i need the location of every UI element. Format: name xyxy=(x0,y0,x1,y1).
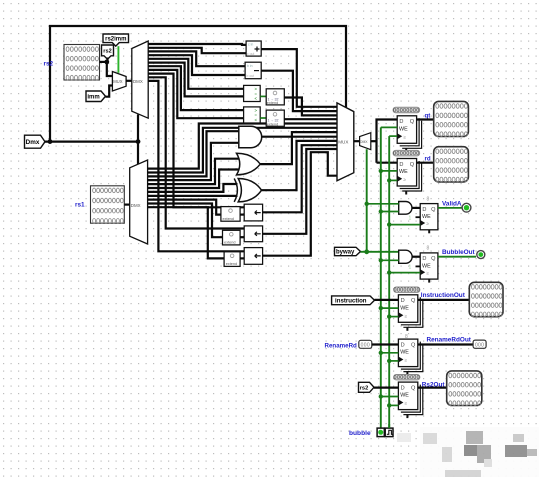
junction green select xyxy=(365,202,369,206)
tunnel imm xyxy=(86,91,106,102)
svg-text:D: D xyxy=(422,207,426,213)
comparator U5 xyxy=(244,107,261,123)
wire DMX3 out xyxy=(371,140,377,142)
wire WE to R2 xyxy=(381,170,397,172)
tunnel rs2 bottom xyxy=(359,382,375,392)
wire Dmx tunnel to demux selects xyxy=(45,141,138,143)
wire Dmx select net: left-top frame to MUX select xyxy=(50,26,346,142)
wire clk to R7 xyxy=(389,404,398,406)
wire rs2imm select (green) xyxy=(117,46,119,73)
svg-text:Q: Q xyxy=(431,207,436,213)
svg-text:MUX: MUX xyxy=(338,140,348,145)
probe InstructionOut 32-bit xyxy=(469,282,503,316)
wire DMX2 out9 to extender4 xyxy=(148,204,223,238)
svg-text:1: 1 xyxy=(409,265,412,271)
svg-text:rs2: rs2 xyxy=(44,61,54,68)
wire WE to R1 xyxy=(381,126,397,128)
wire DMX3 out0 to register D xyxy=(377,120,398,163)
svg-text:000: 000 xyxy=(361,343,370,349)
wire extender5 to shifter3 xyxy=(240,257,244,259)
svg-text:RenameRdOut: RenameRdOut xyxy=(427,336,472,343)
OR gate G2 xyxy=(237,153,261,175)
svg-text:Q: Q xyxy=(411,342,416,348)
wire WE to R7 xyxy=(381,396,399,398)
probe Rs2Out 32-bit xyxy=(447,371,482,406)
wire shifter1 out to MUX row9 xyxy=(263,145,337,212)
wire R3 Q to ValidA pin xyxy=(438,207,462,209)
wire R4 Q to BubbleOut pin xyxy=(438,256,476,258)
probe qt output 32-bit xyxy=(434,101,469,136)
svg-text:8: 8 xyxy=(427,197,430,203)
svg-text:WE: WE xyxy=(399,169,408,175)
svg-text:rs1: rs1 xyxy=(75,202,85,209)
junction green clk xyxy=(387,403,391,407)
wire clk to R2 xyxy=(389,179,397,181)
junction green WE xyxy=(379,394,383,398)
wire R7 Q to probe xyxy=(418,387,447,389)
wire subtractor out to MUX row1 xyxy=(261,71,337,111)
shifter U11 xyxy=(244,226,262,242)
multiplexer MUX1 xyxy=(112,72,126,92)
AND gate G1 xyxy=(239,126,262,147)
tunnel rs2 small xyxy=(102,45,114,59)
demultiplexer DMX2 xyxy=(130,160,148,244)
wire DMX2 out0 to MUX row xyxy=(148,124,337,169)
wire DMX2 out1 to MUX row xyxy=(148,128,337,173)
wire R3 WE stub xyxy=(416,216,421,218)
probe register rs2 value xyxy=(394,375,420,382)
wire R2 Q to probe xyxy=(417,162,434,164)
wire shifter3 out to MUX low row xyxy=(263,152,337,256)
wire DMX1 out7 to comparator2 B xyxy=(148,70,243,118)
bit extender U9 xyxy=(224,252,240,267)
watermark mosaic (censored) xyxy=(397,427,539,477)
wire extender2 out to MUX row3 xyxy=(284,118,337,120)
svg-text:D: D xyxy=(399,119,403,125)
shifter U10 xyxy=(244,204,262,221)
wire green clock rail xyxy=(388,136,390,428)
svg-text:byway: byway xyxy=(336,250,355,256)
wire rs1 to DMX2 xyxy=(124,204,129,206)
junction byway-select rail xyxy=(364,249,369,254)
wire imm to MUX1 in1 xyxy=(106,86,113,97)
svg-text:Rs2Out: Rs2Out xyxy=(422,381,446,388)
svg-text:00000000: 00000000 xyxy=(393,108,419,114)
svg-text:WE: WE xyxy=(400,305,409,311)
wire R1 Q to probe xyxy=(417,118,434,120)
junction green clk xyxy=(387,270,391,274)
wire DMX2 out2 to AND in0 xyxy=(148,131,239,176)
svg-text:instruction: instruction xyxy=(335,298,367,305)
wire DMX1 out2 to subtractor A xyxy=(148,51,245,66)
svg-text:WE: WE xyxy=(422,214,431,220)
junction green WE xyxy=(379,209,383,213)
junction green WE xyxy=(379,351,383,355)
probe rs2 value 00000000x4 xyxy=(64,45,100,81)
wire DMX1 out0 to adder A xyxy=(148,43,246,46)
wire green WE rail (bubble) xyxy=(380,127,382,428)
wire DMX1 out8 to shifter1 A xyxy=(148,74,244,208)
tunnel byway xyxy=(335,247,361,255)
svg-text:D: D xyxy=(399,162,403,168)
svg-text:00000000: 00000000 xyxy=(394,288,420,294)
tunnel instruction xyxy=(332,296,375,305)
register R4 BubbleOut xyxy=(420,253,438,283)
output pin BubbleOut xyxy=(477,251,485,259)
svg-text:WE: WE xyxy=(399,126,408,132)
svg-text:c out: c out xyxy=(247,52,254,56)
svg-text:extend: extend xyxy=(267,122,278,126)
junction green clk xyxy=(387,314,391,318)
wire DMX3 out1 to register D xyxy=(377,162,398,164)
wire green select rail (byway) xyxy=(366,149,368,252)
svg-text:rs2: rs2 xyxy=(360,385,369,391)
wire DMX1 out1 to adder B xyxy=(148,48,246,53)
svg-text:1: 1 xyxy=(409,216,412,222)
wire DMX2 out4 to OR in0 xyxy=(148,159,239,184)
wire rs2 probe out xyxy=(100,61,107,63)
svg-text:DMX: DMX xyxy=(360,140,368,144)
output pin ValidA xyxy=(462,203,471,212)
junction green WE xyxy=(379,169,383,173)
wire DMX2 out6 to XOR in0 xyxy=(148,184,238,192)
wire AND out to MUX row8 xyxy=(262,136,337,138)
svg-text:D: D xyxy=(401,298,405,304)
wire MUX1 out to DMX1 xyxy=(126,80,132,82)
wire select DMX1-DMX2 xyxy=(137,115,139,165)
svg-text:rs2: rs2 xyxy=(103,48,111,54)
register R3 ValidA xyxy=(420,204,438,234)
junction green clk xyxy=(387,359,391,363)
wire DMX1 out5 to comparator1 B xyxy=(148,63,243,97)
wire DMX1 out9 to shifter2 A xyxy=(148,77,244,228)
svg-text:D: D xyxy=(401,385,405,391)
svg-text:WE: WE xyxy=(400,393,409,399)
junction green clk xyxy=(387,178,391,182)
wire rs2 to MUX1 in0 xyxy=(107,62,113,76)
wire DMX2 out3 to AND in1 xyxy=(148,143,239,180)
svg-text:RenameRd: RenameRd xyxy=(325,343,358,350)
svg-text:DMX: DMX xyxy=(133,79,143,84)
wire shifter2 out to MUX row10 xyxy=(263,149,337,234)
wire rs2 tunnel down xyxy=(106,58,108,62)
wire DMX2 out10 to extender5 xyxy=(148,207,225,258)
register R6 RenameRd xyxy=(398,339,422,375)
svg-text:extend: extend xyxy=(224,241,235,245)
probe RenameRd input xyxy=(359,340,372,348)
svg-text:000: 000 xyxy=(475,343,484,349)
svg-text:00000000: 00000000 xyxy=(394,375,420,381)
wire XOR out to MUX row7 xyxy=(262,141,338,190)
wire DMX1 out10 to shifter3 A xyxy=(148,81,244,251)
svg-text:extend: extend xyxy=(226,262,237,266)
register R2 rd xyxy=(397,159,421,195)
multiplexer MUX2 xyxy=(337,103,354,181)
adder U1 xyxy=(246,41,261,56)
wire DMX1 out6 to comparator2 A xyxy=(148,66,243,110)
svg-text:8: 8 xyxy=(427,246,430,252)
wire R4 WE stub xyxy=(416,265,421,267)
wire extender4 to shifter2 xyxy=(240,236,244,238)
wire byway net xyxy=(361,251,399,253)
svg-text:extend: extend xyxy=(267,101,278,105)
bit extender U4 xyxy=(266,89,284,105)
wire WE to R5 xyxy=(381,307,399,309)
svg-text:00000000: 00000000 xyxy=(393,151,419,157)
comparator U3 xyxy=(244,85,261,101)
wire MUX2 out to DMX3 xyxy=(354,140,360,142)
junction demux select xyxy=(136,139,141,144)
wire rs2 to R7 D xyxy=(374,387,398,389)
svg-text:ValidA: ValidA xyxy=(442,201,462,208)
svg-text:Dmx: Dmx xyxy=(26,139,40,146)
wire OR out to MUX row6 xyxy=(260,132,337,164)
wire RenameRd to R6 D xyxy=(372,343,399,345)
probe RenameRdOut xyxy=(473,340,486,349)
AND gate G5 xyxy=(399,250,412,263)
wire DMX1 out4 to comparator1 A xyxy=(148,59,243,89)
svg-text:D: D xyxy=(422,256,426,262)
subtractor U2 xyxy=(245,62,261,78)
wire clk to R4 xyxy=(389,272,420,274)
wire DMX1 out3 to subtractor B xyxy=(148,55,245,75)
wire R6 Q to probe xyxy=(418,343,473,345)
probe register instruction value xyxy=(394,287,420,294)
wire clk to R5 xyxy=(389,316,398,318)
wire G5 out to R4 D xyxy=(412,256,420,258)
demultiplexer DMX3 xyxy=(360,133,371,150)
wire DMX2 out5 to OR in1 xyxy=(148,170,239,189)
svg-text:Q: Q xyxy=(431,256,436,262)
svg-text:bubble: bubble xyxy=(349,430,371,437)
bit extender U6 xyxy=(266,110,284,126)
tunnel Dmx xyxy=(25,135,46,148)
clock component xyxy=(385,428,393,437)
wire instruction to R5 D xyxy=(375,299,399,301)
svg-text:D: D xyxy=(401,342,405,348)
probe rs1 value 00000000x4 xyxy=(91,186,125,223)
svg-text:b in: b in xyxy=(247,64,253,68)
svg-text:c in: c in xyxy=(248,43,253,47)
wire clk to R1 xyxy=(389,135,397,137)
register R5 Instruction xyxy=(398,295,422,331)
svg-text:InstructionOut: InstructionOut xyxy=(421,292,466,299)
wire comparator2 to extender2 (green) xyxy=(260,117,266,119)
svg-text:extend: extend xyxy=(223,217,234,221)
svg-text:WE: WE xyxy=(422,263,431,269)
junction green clk xyxy=(387,222,391,226)
input pin bubble xyxy=(377,428,384,437)
junction green WE xyxy=(379,306,383,310)
svg-text:qt: qt xyxy=(425,112,431,119)
bit extender U8 xyxy=(223,230,241,245)
probe rd output 32-bit xyxy=(434,147,469,182)
svg-text:rd: rd xyxy=(425,155,431,162)
wire clock to rail xyxy=(388,424,390,428)
svg-text:rs2imm: rs2imm xyxy=(105,37,126,43)
wire extender1 out to MUX row2 xyxy=(284,98,337,116)
svg-text:DMX: DMX xyxy=(131,203,141,208)
wire DMX2 out8 to extender3 xyxy=(148,200,221,215)
probe register rd value xyxy=(393,150,420,157)
wire comparator1 to extender1 (green) xyxy=(260,95,266,97)
junction Dmx net xyxy=(48,139,53,144)
probe register qt value xyxy=(393,107,420,114)
wire DMX2 out7 to XOR in1 xyxy=(148,195,238,197)
tunnel rs2imm xyxy=(103,34,129,46)
junction rs2 net xyxy=(104,60,109,65)
wire R5 Q to probe xyxy=(418,299,470,301)
svg-text:Q: Q xyxy=(411,298,416,304)
svg-text:BubbleOut: BubbleOut xyxy=(442,249,476,256)
wire WE rail to AND G5 xyxy=(381,259,399,261)
svg-text:Q: Q xyxy=(411,385,416,391)
register R1 qt xyxy=(397,116,421,152)
svg-text:MUX: MUX xyxy=(113,79,123,84)
svg-text:Q: Q xyxy=(410,119,415,125)
shifter U12 xyxy=(244,248,262,265)
svg-text:Q: Q xyxy=(410,162,415,168)
svg-text:imm: imm xyxy=(87,94,99,100)
wire adder out to MUX row0 xyxy=(261,49,337,107)
wire WE to R6 xyxy=(381,352,399,354)
wire extender3 to shifter1 xyxy=(240,214,244,216)
AND gate G4 xyxy=(399,202,412,215)
register R7 Rs2 xyxy=(398,382,422,418)
bit extender U7 xyxy=(221,207,240,222)
wire WE rail to AND G4 xyxy=(381,211,399,213)
wire G4 out to R3 D xyxy=(412,207,420,209)
wire clk to R3 xyxy=(389,224,420,226)
demultiplexer DMX1 xyxy=(132,41,148,118)
svg-text:b out: b out xyxy=(247,74,255,78)
XOR gate G3 xyxy=(234,179,261,202)
junction green WE xyxy=(379,258,383,262)
svg-text:WE: WE xyxy=(400,350,409,356)
wire select to AND G4 xyxy=(367,203,399,205)
wire clk to R6 xyxy=(389,360,398,362)
